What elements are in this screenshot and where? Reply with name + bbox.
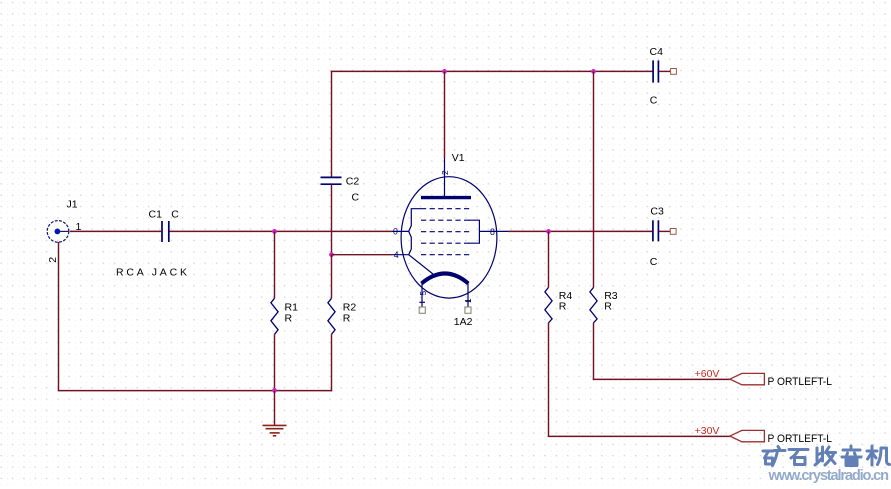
wire node D down to R3 <box>593 71 595 287</box>
svg-text:+30V: +30V <box>695 425 720 437</box>
svg-text:R: R <box>343 312 351 324</box>
wire bottom rail <box>58 390 332 392</box>
svg-text:RCA JACK: RCA JACK <box>116 267 187 279</box>
wire J1 pin1 to C1 <box>70 230 161 232</box>
no-connect square filament left <box>419 307 425 313</box>
wire top rail <box>331 70 653 72</box>
svg-text:C: C <box>171 208 179 220</box>
wire to +30V port <box>548 435 730 437</box>
capacitor C1 <box>162 221 169 242</box>
svg-text:J1: J1 <box>67 199 78 211</box>
vacuum tube V1 (1A2) <box>392 158 508 307</box>
svg-text:+60V: +60V <box>695 368 720 380</box>
wire node A to tube grid pin 0 <box>275 230 393 232</box>
svg-text:C: C <box>352 192 360 204</box>
junction node C <box>546 229 551 234</box>
svg-text:1A2: 1A2 <box>454 316 473 328</box>
resistor R2 <box>328 298 335 334</box>
wire R4 down <box>548 323 550 437</box>
watermark text 矿石收音机 <box>763 446 890 466</box>
wire plate drop <box>444 71 446 158</box>
pin 4 lead <box>392 254 409 256</box>
filament left leg <box>421 284 423 308</box>
svg-text:V1: V1 <box>452 152 465 164</box>
pin 8 lead <box>479 230 508 232</box>
capacitor C4 <box>653 60 658 82</box>
no-connect square C4 <box>671 69 677 75</box>
svg-text:C: C <box>650 95 658 107</box>
svg-text:P ORTLEFT-L: P ORTLEFT-L <box>768 376 833 388</box>
svg-text:C4: C4 <box>650 46 664 58</box>
cathode arc <box>422 274 469 284</box>
resistor R1 <box>271 298 278 334</box>
wire to +60V port <box>593 378 730 380</box>
capacitor C2 <box>321 177 342 184</box>
svg-text:C: C <box>650 256 658 268</box>
capacitor C3 <box>653 220 659 241</box>
tube envelope <box>401 177 497 298</box>
svg-text:www.crystalradio.cn: www.crystalradio.cn <box>768 468 890 484</box>
wire R1 to bottom rail <box>274 334 276 390</box>
wire C4 to no-connect <box>659 70 670 72</box>
junction plate node on top rail <box>442 69 447 74</box>
resistor R3 <box>590 287 597 322</box>
junction node B <box>329 252 334 257</box>
wire tube pin 8 to C3 <box>508 230 652 232</box>
svg-text:0: 0 <box>393 227 398 237</box>
svg-text:C1: C1 <box>149 208 163 220</box>
no-connect square C3 <box>670 229 676 235</box>
svg-text:5: 5 <box>418 291 428 296</box>
grid dashed rows <box>421 208 472 210</box>
wire C1 to node A <box>170 230 275 232</box>
svg-text:R: R <box>559 300 567 312</box>
resistor R4 <box>545 287 552 322</box>
svg-text:R: R <box>285 312 293 324</box>
filament right leg <box>467 284 469 308</box>
plate bar <box>421 196 471 199</box>
wire node C down to R4 <box>548 231 550 287</box>
junction node D on top rail <box>591 69 596 74</box>
wire R3 down <box>593 323 595 380</box>
junction at ground node <box>272 388 277 393</box>
junction node A <box>272 229 277 234</box>
svg-text:8: 8 <box>490 227 495 237</box>
port PORTLEFT-L upper <box>730 373 765 384</box>
wire C3 to no-connect <box>659 230 670 232</box>
wire R2 to bottom rail <box>331 334 333 391</box>
svg-text:4: 4 <box>394 250 399 260</box>
ground symbol <box>263 425 287 435</box>
svg-text:2: 2 <box>47 257 59 263</box>
svg-text:2: 2 <box>440 170 450 175</box>
svg-text:1: 1 <box>463 298 473 303</box>
wire ground stem <box>274 391 276 426</box>
wire node B to tube grid pin 4 <box>332 254 393 256</box>
svg-text:C2: C2 <box>346 176 360 188</box>
grid left bracket <box>409 209 433 274</box>
svg-text:C3: C3 <box>650 205 664 217</box>
plate lead <box>444 158 446 197</box>
port PORTLEFT-L lower <box>730 430 765 441</box>
no-connect square filament right <box>465 307 471 313</box>
wire C2 to node B <box>331 185 333 255</box>
svg-text:R: R <box>604 300 612 312</box>
filament leg ticks <box>419 301 425 303</box>
svg-text:P ORTLEFT-L: P ORTLEFT-L <box>768 433 833 445</box>
pin 0 lead <box>392 230 409 232</box>
wire node B down to R2 <box>331 255 333 299</box>
wire J1 pin2 down left side <box>58 242 60 391</box>
connector J1 (RCA jack) <box>47 221 69 243</box>
grid right bracket <box>468 220 479 243</box>
wire top rail down to C2 <box>331 71 333 177</box>
wire node A down to R1 <box>274 231 276 298</box>
